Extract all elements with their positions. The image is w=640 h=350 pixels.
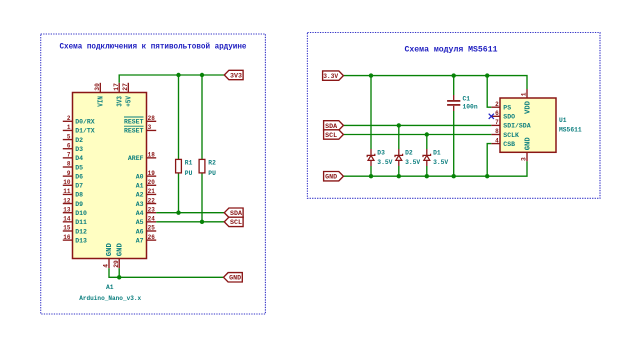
svg-text:R2: R2 [208,159,216,166]
junction 3.3V rail / C1 [452,73,456,77]
wire: SCL net from tag to U1 pin 8 [343,134,491,136]
svg-text:A4: A4 [136,210,144,217]
junction GND rail / D3 [369,174,373,178]
net label SCL [224,217,243,226]
U1 pin 7 SDI/SDA [491,119,530,130]
wire: D2 from SDA to GND rail [398,125,400,176]
svg-text:3.5V: 3.5V [377,159,392,166]
svg-text:21: 21 [148,188,156,195]
svg-text:A1: A1 [136,183,144,190]
U1 pin 2 PS [491,101,511,112]
A1 pin 6 D3 [63,142,83,153]
svg-text:24: 24 [148,216,156,223]
junction SDA / R1 [176,211,180,215]
svg-text:5: 5 [67,133,71,140]
svg-text:SDA: SDA [325,123,337,130]
svg-text:GND: GND [525,137,533,150]
wire: 3V3 from pin 17 up and right to 3V3 tag [119,75,224,83]
A1 pin 16 D13 [63,234,87,245]
svg-text:30: 30 [94,83,101,91]
net label SDA (right sheet) [324,121,344,130]
A1 pin 4 GND (bottom) [103,243,115,268]
svg-text:3V3: 3V3 [230,72,242,79]
A1 pin 20 A1 [136,179,157,190]
svg-text:RESET: RESET [124,119,144,126]
svg-text:PU: PU [185,170,193,177]
svg-text:6: 6 [495,110,499,117]
wire: SDA net from tag to U1 pin 7 [343,124,491,126]
svg-text:8: 8 [67,161,71,168]
svg-text:SDI/SDA: SDI/SDA [503,123,530,130]
svg-text:25: 25 [148,225,156,232]
A1 pin 18 AREF [128,152,156,163]
wire: R1 down to SDA net [178,173,180,213]
A1 value label Arduino_Nano_v3.x [79,295,141,302]
A1 pin 2 D0/RX [63,115,95,126]
U1 pin 8 SCLK [491,128,519,139]
svg-text:D12: D12 [75,228,87,235]
svg-text:SCL: SCL [325,132,337,139]
A1 pin 22 A3 [136,197,157,208]
svg-text:2: 2 [67,115,71,122]
U1 pin 4 CSB [491,137,515,148]
svg-text:GND: GND [325,174,337,181]
wire: D3 from 3.3V rail to GND rail [370,76,372,177]
A1 pin 21 A2 [136,188,157,199]
svg-text:7: 7 [67,152,71,159]
net label SDA [224,208,243,217]
svg-text:100n: 100n [463,104,478,111]
svg-text:D3: D3 [377,150,385,157]
U1 pin 6 SDO [491,110,515,121]
svg-text:+5V: +5V [126,95,134,106]
svg-text:A1: A1 [106,284,114,291]
A1 pin 26 A7 [136,234,157,245]
svg-text:D1/TX: D1/TX [75,128,95,135]
svg-text:3.5V: 3.5V [433,159,448,166]
svg-text:SCLK: SCLK [503,132,519,139]
svg-text:SDO: SDO [503,114,515,121]
svg-text:7: 7 [495,119,499,126]
wire: C1 from 3.3V rail to GND rail [453,76,455,177]
junction 3.3V rail / D3 [369,73,373,77]
svg-text:D8: D8 [75,192,83,199]
svg-text:3.5V: 3.5V [405,159,420,166]
svg-text:VIN: VIN [98,96,106,107]
svg-text:SDA: SDA [230,210,242,217]
svg-text:3V3: 3V3 [116,96,124,107]
wire: SCL net from pin 24 to SCL tag [156,221,224,223]
svg-text:4: 4 [495,137,499,144]
svg-text:D4: D4 [75,155,83,162]
A1 pin 7 D4 [63,152,83,163]
svg-text:D5: D5 [75,164,83,171]
svg-text:11: 11 [63,188,71,195]
svg-text:13: 13 [63,206,71,213]
A1 pin 14 D11 [63,216,87,227]
junction SCL / R2 [200,220,204,224]
svg-text:12: 12 [63,197,71,204]
junction GND at pin 29 [117,275,121,279]
A1 pin 17 3V3 (top) [113,83,125,107]
svg-text:SCL: SCL [230,219,242,226]
svg-text:PU: PU [208,170,216,177]
IC A1 Arduino_Nano_v3.x body [73,93,147,259]
A1 pin 3 RESET [124,124,156,135]
A1 pin 15 D12 [63,225,87,236]
svg-text:1: 1 [67,124,71,131]
frame: right schematic dashed border [307,33,600,199]
title: left schematic [60,43,247,52]
svg-text:3: 3 [521,157,528,161]
svg-text:29: 29 [113,260,120,268]
net label SCL (right sheet) [324,130,344,139]
svg-text:2: 2 [495,101,499,108]
svg-text:Схема модуля MS5611: Схема модуля MS5611 [405,45,498,54]
junction GND rail / D2 [397,174,401,178]
svg-text:D1: D1 [433,150,441,157]
U1 pin 3 GND (bottom) [521,137,533,161]
net label GND (right sheet) [324,172,344,181]
junction on 3V3 rail at R1 [176,73,180,77]
svg-text:Arduino_Nano_v3.x: Arduino_Nano_v3.x [79,295,141,302]
wire: GND from pins 4 and 29 to GND tag [109,268,224,277]
svg-text:D0/RX: D0/RX [75,119,95,126]
svg-text:A2: A2 [136,192,144,199]
wire: CSB to GND rail [487,144,491,177]
A1 pin 1 D1/TX [63,124,95,135]
svg-text:D13: D13 [75,237,87,244]
svg-text:A7: A7 [136,237,144,244]
A1 pin 28 RESET [124,115,156,126]
svg-text:28: 28 [148,115,156,122]
junction SCL / D1 [425,132,429,136]
svg-text:RESET: RESET [124,128,144,135]
resistor R2 (PU) [199,159,216,177]
svg-text:26: 26 [148,234,156,241]
A1 pin 30 VIN (top) [94,83,106,107]
junction GND rail / D1 [425,174,429,178]
svg-text:A3: A3 [136,201,144,208]
A1 pin 13 D10 [63,206,87,217]
A1 pin 9 D6 [63,170,83,181]
svg-text:GND: GND [229,275,241,282]
A1 pin 10 D7 [63,179,83,190]
net label GND (left sheet) [224,273,243,282]
net label 3.3V (right sheet) [323,71,344,80]
svg-text:22: 22 [148,197,156,204]
A1 pin 25 A6 [136,225,157,236]
resistor R1 (PU) [176,159,193,177]
svg-text:20: 20 [148,179,156,186]
svg-text:10: 10 [63,179,71,186]
wire: 3.3V rail from tag to U1 VDD pin 1 [343,76,527,89]
wire: GND rail from tag to U1 GND pin 3 [343,161,527,176]
junction on 3V3 rail at R2 [200,73,204,77]
junction GND rail / C1 [452,174,456,178]
A1 reference label [106,284,114,291]
svg-text:VDD: VDD [525,101,533,114]
svg-text:15: 15 [63,225,71,232]
no-connect X on U1 pin 6 SDO [489,114,494,119]
title: right schematic [405,45,498,54]
svg-text:8: 8 [495,128,499,135]
svg-text:A0: A0 [136,173,144,180]
svg-text:CSB: CSB [503,141,515,148]
A1 pin 5 D2 [63,133,83,144]
wire: 3.3V down to U1 PS pin 2 [487,76,491,108]
svg-text:4: 4 [103,264,110,268]
svg-text:D9: D9 [75,201,83,208]
wire: SDA net from pin 23 to SDA tag [156,212,224,214]
A1 pin 24 A5 [136,216,157,227]
svg-text:3: 3 [148,124,152,131]
U1 reference label [559,117,567,124]
A1 pin 27 +5V (top) [122,83,134,107]
A1 pin 29 GND (bottom) [113,243,125,268]
svg-text:3.3V: 3.3V [323,73,338,80]
svg-text:R1: R1 [185,159,193,166]
A1 pin 12 D9 [63,197,83,208]
svg-text:D2: D2 [75,137,83,144]
svg-text:18: 18 [148,152,156,159]
A1 pin 23 A4 [136,206,157,217]
diode D1 3.5V [423,149,448,166]
diode D3 3.5V [367,149,392,166]
net label 3V3 [224,70,243,79]
svg-text:AREF: AREF [128,155,144,162]
svg-text:16: 16 [63,234,71,241]
svg-text:14: 14 [63,216,71,223]
IC U1 MS5611 body [500,98,556,152]
svg-text:1: 1 [521,92,528,96]
junction 3.3V rail / PS branch [485,73,489,77]
svg-text:U1: U1 [559,117,567,124]
svg-text:GND: GND [106,243,114,256]
svg-text:6: 6 [67,142,71,149]
svg-text:D7: D7 [75,183,83,190]
wire: 3V3 rail down to R1 [178,75,180,159]
capacitor C1 100n [447,95,478,111]
svg-text:D10: D10 [75,210,87,217]
U1 value label MS5611 [559,127,582,134]
svg-text:D6: D6 [75,173,83,180]
wire: D1 from SCL to GND rail [426,135,428,177]
frame: left schematic dashed border [41,34,266,314]
wire: R2 down to SCL net [201,173,203,222]
A1 pin 11 D8 [63,188,83,199]
diode D2 3.5V [395,149,420,166]
svg-text:PS: PS [503,105,511,112]
svg-text:27: 27 [122,83,129,91]
svg-text:D11: D11 [75,219,87,226]
junction GND rail / CSB [485,174,489,178]
A1 pin 19 A0 [136,170,157,181]
svg-text:C1: C1 [463,95,471,102]
svg-text:A5: A5 [136,219,144,226]
svg-text:19: 19 [148,170,156,177]
svg-text:23: 23 [148,206,156,213]
svg-text:A6: A6 [136,228,144,235]
svg-text:D3: D3 [75,146,83,153]
svg-text:17: 17 [113,83,120,91]
svg-text:MS5611: MS5611 [559,127,582,134]
svg-text:9: 9 [67,170,71,177]
junction SDA / D2 [397,123,401,127]
A1 pin 8 D5 [63,161,83,172]
wire: 3V3 rail down to R2 [201,75,203,159]
svg-text:GND: GND [116,243,124,256]
U1 pin 1 VDD (top) [521,89,533,114]
svg-text:Схема подключения к пятивольто: Схема подключения к пятивольтовой ардуин… [60,43,247,52]
svg-text:D2: D2 [405,150,413,157]
